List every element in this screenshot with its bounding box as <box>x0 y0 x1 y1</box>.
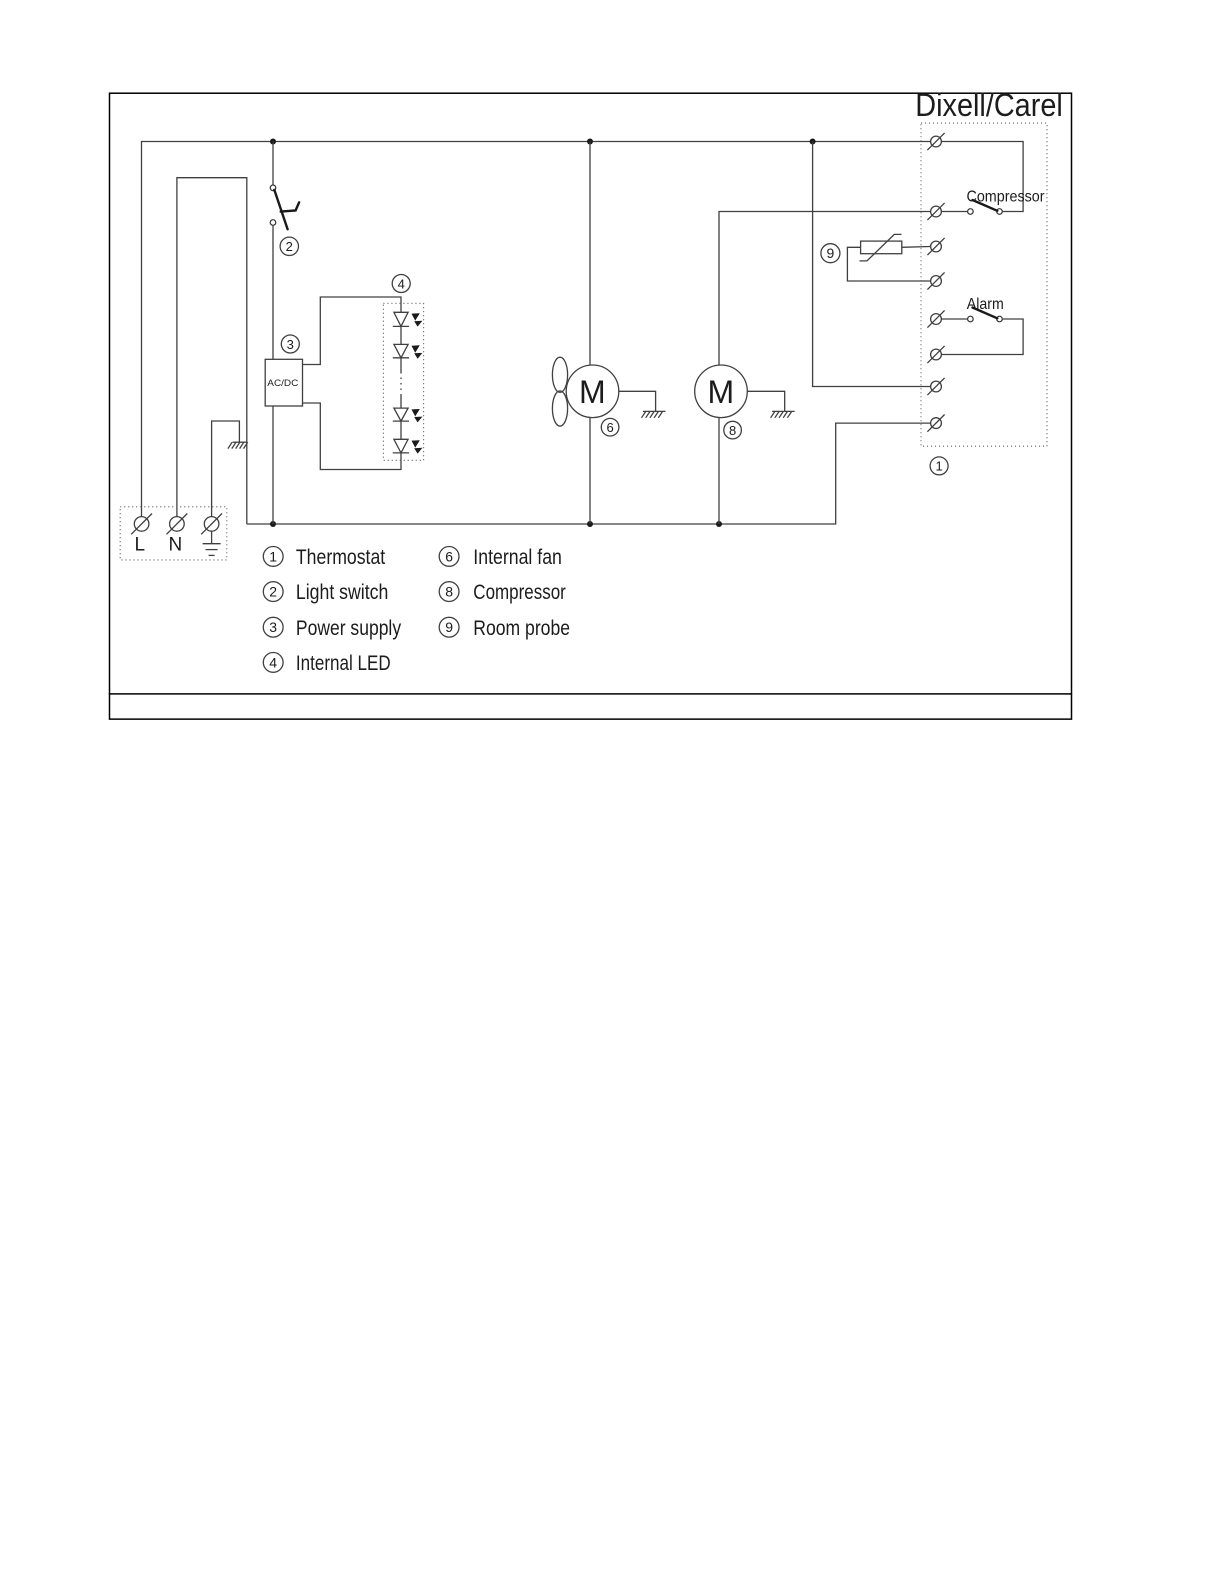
wire alarm loop to T6 <box>942 319 1023 355</box>
svg-text:AC/DC: AC/DC <box>267 378 298 389</box>
LED D2 <box>393 344 409 357</box>
svg-text:Compressor: Compressor <box>473 580 566 604</box>
node junction L-switch <box>270 139 276 145</box>
wire RT to T4 <box>847 247 930 281</box>
svg-text:2: 2 <box>286 239 293 254</box>
ground chassis fan <box>642 411 666 417</box>
svg-text:1: 1 <box>935 459 942 474</box>
node junction fan <box>587 139 593 145</box>
svg-text:Internal LED: Internal LED <box>296 651 391 675</box>
label circled 1 <box>930 457 948 475</box>
svg-text:Power supply: Power supply <box>296 616 401 640</box>
svg-text:Light switch: Light switch <box>296 580 388 604</box>
node terminal N <box>167 514 188 535</box>
node terminal T6 <box>927 346 944 363</box>
thermistor RT room probe <box>860 234 902 261</box>
wire compressor ground arm <box>747 391 784 411</box>
svg-text:6: 6 <box>606 420 613 435</box>
wire top bus <box>142 142 931 517</box>
node terminal T8 <box>927 415 944 432</box>
node terminal T5 <box>927 310 944 327</box>
LED D1 <box>393 303 409 326</box>
wire LED- route <box>303 403 402 470</box>
svg-text:Thermostat: Thermostat <box>296 545 385 569</box>
legend item 4 <box>263 651 390 675</box>
wire fan branch bottom <box>589 417 591 524</box>
wire D4 to box bottom <box>400 453 402 460</box>
wire D3-D4 <box>400 421 402 439</box>
svg-text:L: L <box>135 535 146 556</box>
fan blades <box>552 357 567 392</box>
label circled 6 <box>601 418 619 436</box>
svg-text:Dixell/Carel: Dixell/Carel <box>915 87 1063 123</box>
svg-text:Compressor: Compressor <box>967 189 1045 206</box>
wire earth route <box>212 421 240 517</box>
svg-text:1: 1 <box>269 548 277 564</box>
wire AC/DC to bus <box>272 406 274 524</box>
switch S light switch <box>270 185 276 191</box>
legend item 1 <box>263 545 385 569</box>
thermostat dotted box <box>921 123 1047 446</box>
node junction acdc-bus <box>270 521 276 527</box>
svg-text:6: 6 <box>445 548 453 564</box>
svg-text:Room probe: Room probe <box>473 616 570 640</box>
motor M fan <box>566 365 619 418</box>
node junction compressor-bus <box>716 521 722 527</box>
wire neutral route <box>177 178 247 524</box>
wire T5 to alarm contact <box>942 318 968 320</box>
label circled 4 <box>392 275 410 293</box>
svg-text:2: 2 <box>269 584 277 600</box>
legend item 6 <box>439 545 562 569</box>
ground chassis compressor <box>771 411 795 417</box>
legend item 2 <box>263 580 388 604</box>
svg-text:M: M <box>579 374 606 410</box>
wire compressor branch <box>719 212 930 366</box>
svg-text:3: 3 <box>269 619 277 635</box>
svg-text:9: 9 <box>445 619 453 635</box>
svg-text:8: 8 <box>729 423 736 438</box>
switch alarm relay <box>968 316 974 322</box>
mains terminal dotted box <box>120 507 227 560</box>
label circled 2 <box>280 237 298 255</box>
svg-text:4: 4 <box>269 654 277 670</box>
svg-text:Alarm: Alarm <box>967 296 1004 313</box>
LED D4 <box>393 439 409 453</box>
wire bottom bus to terminal 8 <box>247 423 930 524</box>
svg-text:3: 3 <box>287 337 294 352</box>
wire D1-D2 <box>400 326 402 344</box>
legend item 8 <box>439 580 566 604</box>
node terminal PE <box>201 514 222 535</box>
wire dash-dot continuation <box>400 358 402 372</box>
svg-text:M: M <box>707 374 734 410</box>
wire compressor branch bottom <box>718 417 720 524</box>
node terminal T4 <box>927 272 944 289</box>
wire RT to T3 <box>902 246 930 249</box>
legend item 3 <box>263 616 401 640</box>
node terminal T3 <box>927 238 944 255</box>
svg-text:Internal fan: Internal fan <box>473 545 562 569</box>
wire thermostat live feed <box>813 142 931 387</box>
node terminal T1 <box>927 133 944 150</box>
node terminal T7 <box>927 378 944 395</box>
switch compressor relay <box>968 209 974 215</box>
wire switch to AC/DC <box>272 225 274 359</box>
wire LED+ route <box>303 297 402 365</box>
wire T2 to contact <box>942 211 968 213</box>
wire T1 loop to compressor contact <box>942 142 1023 212</box>
label circled 9 <box>821 244 840 263</box>
ground chassis PE <box>228 442 248 448</box>
legend item 9 <box>439 616 570 640</box>
LED string dotted box <box>383 303 423 460</box>
node junction thermostat feed <box>810 139 816 145</box>
svg-text:N: N <box>169 535 183 556</box>
label circled 8 <box>724 421 742 439</box>
wire fan ground arm <box>619 391 656 411</box>
svg-text:9: 9 <box>827 245 835 261</box>
node terminal L <box>131 514 152 535</box>
node junction fan-bus <box>587 521 593 527</box>
label circled 3 <box>281 335 299 353</box>
LED D3 <box>393 408 409 421</box>
svg-text:8: 8 <box>445 584 453 600</box>
power supply U1 AC/DC box <box>265 359 302 406</box>
wire switch feed <box>272 142 274 186</box>
ground earth symbol <box>203 531 221 555</box>
node terminal T2 <box>927 203 944 220</box>
motor M compressor <box>695 365 748 418</box>
wire fan branch top <box>589 142 591 366</box>
svg-text:4: 4 <box>398 276 405 291</box>
